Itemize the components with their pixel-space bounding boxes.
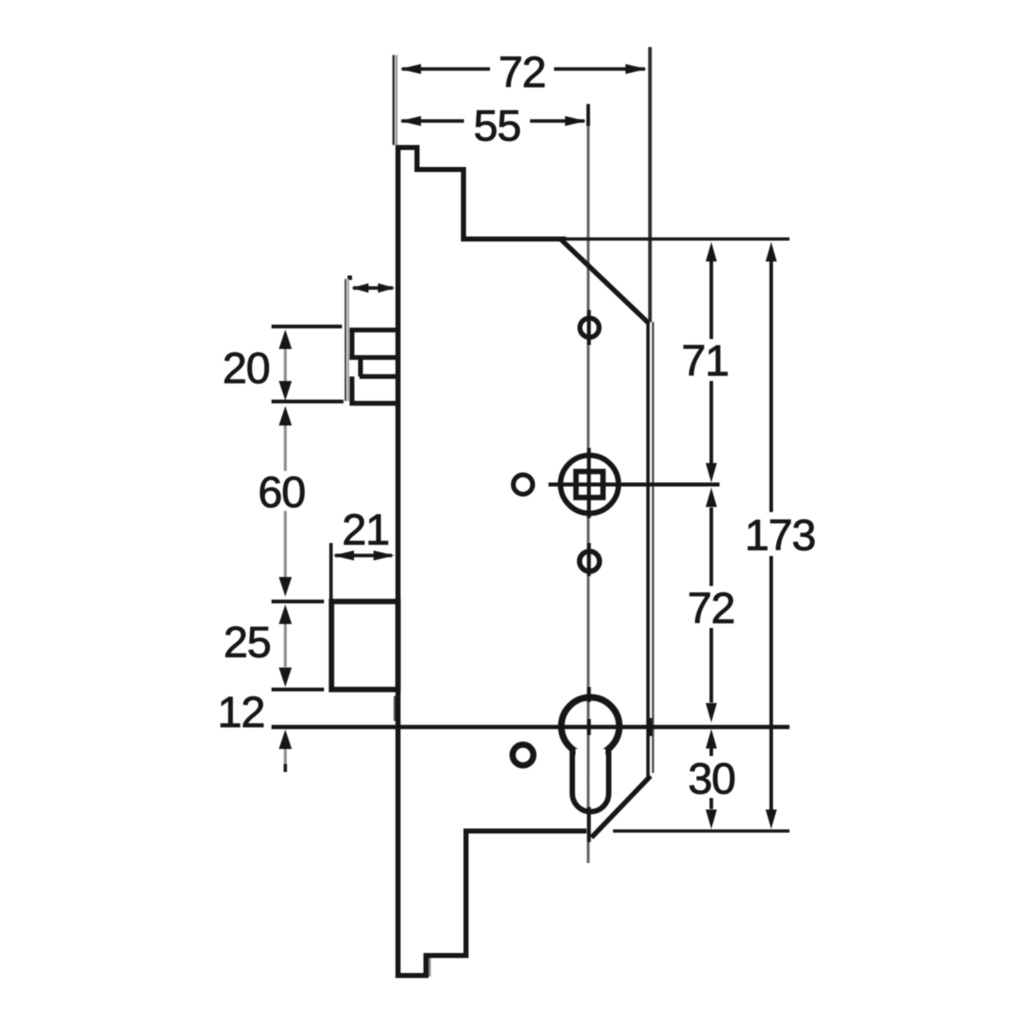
extension line faceplate top [394, 55, 397, 145]
dimension 55 [402, 119, 585, 123]
svg-text:60: 60 [258, 468, 305, 517]
svg-text:30: 30 [688, 755, 735, 804]
extension line right of case [652, 322, 654, 773]
svg-text:72: 72 [688, 584, 735, 633]
case right edge [646, 322, 649, 777]
dimension 25 [284, 624, 287, 667]
centerline ticks [588, 104, 650, 842]
extension line latch front [348, 276, 353, 281]
svg-text:71: 71 [682, 337, 729, 386]
svg-text:20: 20 [223, 344, 270, 393]
svg-text:12: 12 [218, 688, 265, 737]
svg-text:25: 25 [224, 618, 271, 667]
svg-text:21: 21 [342, 506, 389, 555]
lock body outline [398, 148, 587, 976]
svg-text:72: 72 [499, 48, 546, 97]
spindle square [576, 472, 603, 498]
extension line bottom step [428, 957, 431, 977]
hole left of hub [513, 475, 532, 494]
spindle hub circle [561, 455, 619, 513]
bottom diagonal corner [592, 776, 651, 838]
dimension 71 [709, 262, 713, 464]
dimension 60 [284, 425, 287, 577]
euro cylinder circle [561, 697, 619, 755]
dimension 30 [709, 749, 713, 810]
latch bolt [350, 330, 400, 403]
top diagonal corner [561, 240, 649, 324]
svg-text:55: 55 [474, 102, 521, 151]
extension lines left stack [272, 327, 344, 690]
euro cylinder stem [576, 749, 606, 780]
dimension 72 right [709, 508, 713, 703]
dimension 12 arrow [284, 748, 287, 764]
dimension 72 top [402, 67, 645, 71]
screw hole bottom left [513, 745, 534, 766]
extension tick below deadbolt [394, 696, 396, 721]
top extension line right [566, 237, 790, 240]
dimension latch projection [353, 286, 393, 290]
svg-text:173: 173 [745, 511, 815, 560]
dimension 173 [769, 262, 773, 810]
extension line 72 right [648, 47, 652, 322]
dimension 20 [284, 349, 287, 382]
extension line 21 [329, 543, 332, 599]
bottom extension line right [613, 829, 790, 832]
dimension 21 [335, 554, 392, 558]
screw hole below hub [580, 551, 600, 571]
deadbolt [332, 602, 399, 690]
horizontal line through hub [549, 483, 720, 487]
center line vertical [587, 125, 590, 863]
long horizontal line through cylinder [272, 725, 790, 729]
text white backing [252, 48, 814, 798]
screw hole top [580, 318, 599, 337]
